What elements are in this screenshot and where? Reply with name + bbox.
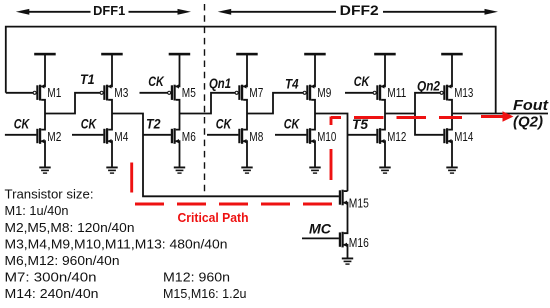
svg-text:M7: 300n/40n: M7: 300n/40n [5,270,97,285]
svg-text:CK: CK [284,116,301,132]
svg-text:M8: M8 [249,129,263,144]
svg-text:M11: M11 [387,85,406,100]
svg-text:CK: CK [81,116,98,132]
svg-text:M16: M16 [349,235,369,250]
svg-text:M13: M13 [454,85,473,100]
svg-text:M10: M10 [317,129,336,144]
svg-text:Qn1: Qn1 [209,76,231,92]
svg-text:M6: M6 [182,129,196,144]
svg-text:M2,M5,M8: 120n/40n: M2,M5,M8: 120n/40n [5,220,135,235]
svg-text:M15: M15 [349,195,369,210]
svg-text:T2: T2 [146,116,161,132]
svg-text:T5: T5 [352,117,369,133]
svg-text:M3,M4,M9,M10,M11,M13: 480n/40n: M3,M4,M9,M10,M11,M13: 480n/40n [5,237,228,252]
svg-text:Fout: Fout [513,98,549,114]
svg-text:M14: 240n/40n: M14: 240n/40n [5,286,99,301]
svg-text:Qn2: Qn2 [417,79,440,95]
svg-text:T4: T4 [285,77,299,93]
svg-text:M9: M9 [317,85,331,100]
svg-text:M7: M7 [249,85,263,100]
svg-text:T1: T1 [80,72,95,88]
svg-text:M12: M12 [387,129,406,144]
svg-text:M1: 1u/40n: M1: 1u/40n [5,203,69,218]
svg-text:M1: M1 [47,85,61,100]
svg-text:M5: M5 [182,85,196,100]
svg-text:M4: M4 [114,129,128,144]
svg-text:M15,M16: 1.2u: M15,M16: 1.2u [163,286,247,301]
svg-text:CK: CK [354,74,371,90]
svg-text:DFF2: DFF2 [340,3,379,18]
svg-text:M12: 960n: M12: 960n [163,270,230,285]
svg-text:M3: M3 [114,85,128,100]
svg-text:DFF1: DFF1 [93,4,125,18]
svg-text:Transistor size:: Transistor size: [5,187,94,202]
svg-text:CK: CK [14,116,31,132]
svg-text:CK: CK [216,116,233,132]
svg-text:M2: M2 [47,129,61,144]
svg-text:Critical Path: Critical Path [178,210,249,225]
svg-text:M6,M12: 960n/40n: M6,M12: 960n/40n [5,253,120,268]
svg-text:CK: CK [148,74,165,90]
svg-text:MC: MC [309,221,332,237]
svg-text:(Q2): (Q2) [513,115,543,131]
svg-text:M14: M14 [454,129,473,144]
